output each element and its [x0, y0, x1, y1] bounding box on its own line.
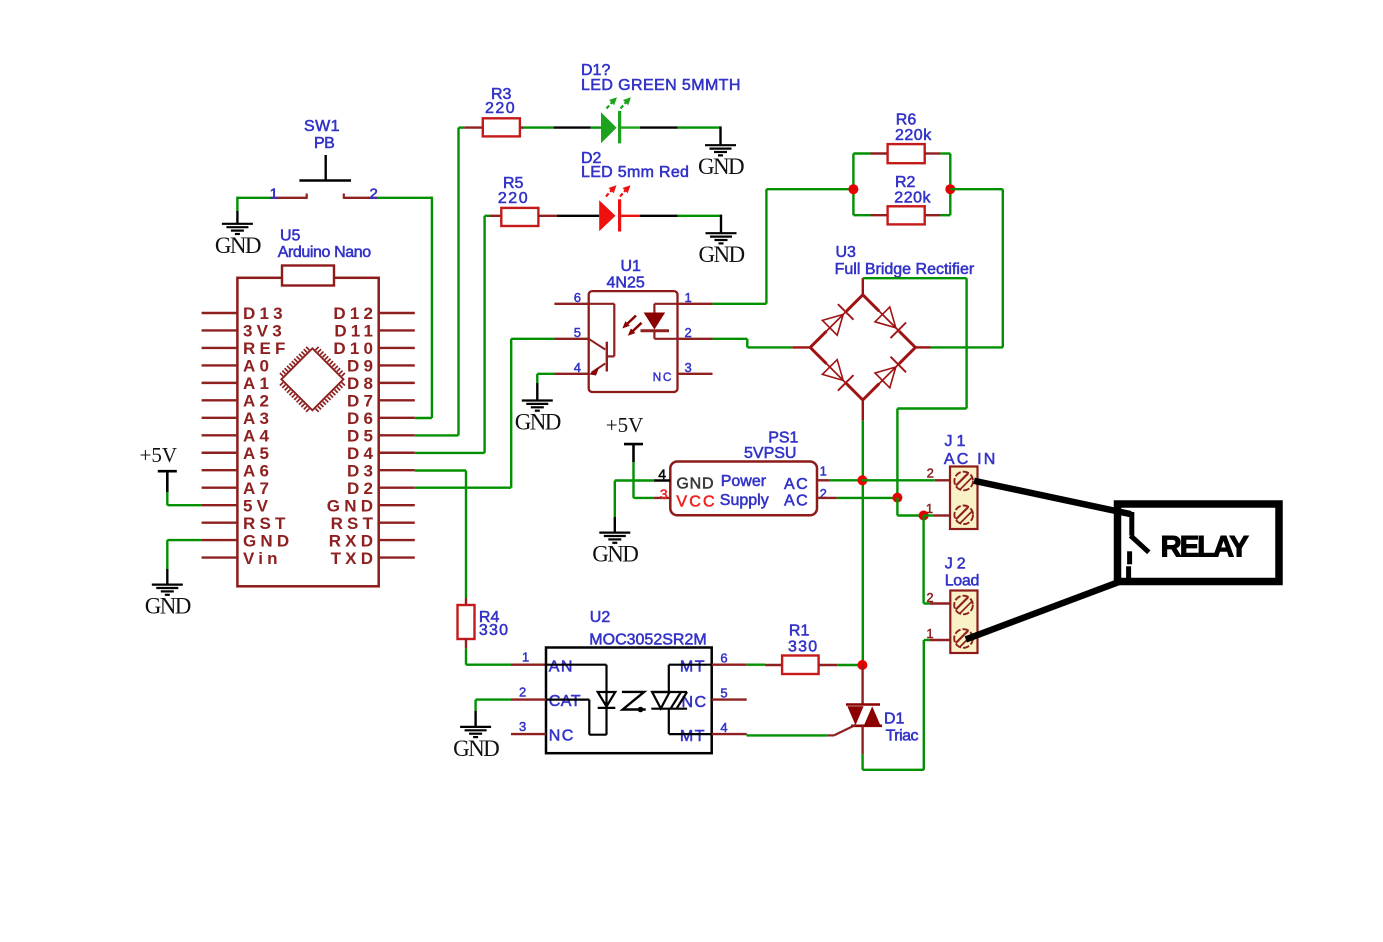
svg-text:A4: A4 [243, 426, 273, 445]
svg-text:GND: GND [145, 594, 191, 619]
svg-text:D8: D8 [347, 374, 377, 393]
svg-text:Vin: Vin [243, 549, 282, 568]
svg-text:MT: MT [680, 658, 706, 675]
svg-text:AC: AC [784, 476, 809, 493]
svg-text:Power: Power [721, 473, 767, 490]
svg-text:D13: D13 [243, 304, 287, 323]
svg-text:D7: D7 [347, 392, 377, 411]
svg-text:U3: U3 [836, 244, 857, 261]
svg-text:220: 220 [498, 190, 529, 207]
svg-text:220k: 220k [895, 127, 932, 144]
svg-text:3: 3 [519, 719, 526, 734]
svg-text:A3: A3 [243, 409, 273, 428]
svg-text:3: 3 [685, 360, 692, 375]
svg-text:GND: GND [515, 410, 561, 435]
svg-text:VCC: VCC [676, 493, 716, 510]
svg-text:6: 6 [574, 290, 581, 305]
svg-text:330: 330 [788, 638, 818, 655]
svg-text:AC: AC [784, 493, 809, 510]
svg-text:U5: U5 [280, 228, 301, 245]
svg-text:GND: GND [243, 531, 293, 550]
svg-text:Load: Load [945, 572, 979, 589]
svg-text:D4: D4 [347, 444, 377, 463]
svg-text:220: 220 [485, 100, 516, 117]
svg-text:AN: AN [549, 658, 574, 675]
svg-text:1: 1 [926, 501, 933, 516]
svg-text:MT: MT [680, 728, 706, 745]
svg-text:1: 1 [270, 186, 278, 203]
svg-text:A0: A0 [243, 357, 273, 376]
svg-text:D10: D10 [333, 339, 377, 358]
svg-text:2: 2 [927, 466, 934, 481]
svg-text:2: 2 [519, 684, 526, 699]
svg-text:4N25: 4N25 [607, 275, 645, 292]
svg-text:RELAY: RELAY [1161, 530, 1250, 563]
svg-text:A5: A5 [243, 444, 273, 463]
svg-text:REF: REF [243, 339, 290, 358]
svg-text:GND: GND [676, 475, 714, 492]
svg-text:5: 5 [574, 325, 581, 340]
svg-text:2: 2 [685, 325, 692, 340]
svg-text:RST: RST [243, 514, 290, 533]
svg-text:D6: D6 [347, 409, 377, 428]
svg-text:1: 1 [820, 463, 827, 478]
svg-text:4: 4 [720, 720, 727, 735]
svg-text:D11: D11 [334, 322, 377, 341]
svg-text:Arduino Nano: Arduino Nano [278, 244, 372, 261]
svg-text:D3: D3 [347, 461, 377, 480]
svg-text:GND: GND [215, 233, 261, 258]
svg-text:LED 5mm Red: LED 5mm Red [581, 164, 689, 181]
svg-text:5: 5 [720, 685, 727, 700]
svg-text:3: 3 [660, 486, 668, 502]
svg-text:CAT: CAT [549, 693, 581, 710]
svg-text:D1: D1 [884, 711, 905, 728]
svg-text:A1: A1 [243, 374, 273, 393]
svg-text:NC: NC [549, 728, 575, 745]
svg-text:A7: A7 [243, 479, 273, 498]
svg-text:330: 330 [479, 622, 509, 639]
svg-text:A2: A2 [243, 392, 273, 411]
svg-text:220k: 220k [894, 190, 931, 207]
svg-text:Full Bridge Rectifier: Full Bridge Rectifier [835, 261, 975, 278]
svg-text:Supply: Supply [720, 492, 769, 509]
svg-text:D5: D5 [347, 426, 377, 445]
svg-text:PB: PB [314, 135, 334, 152]
svg-text:1: 1 [685, 290, 692, 305]
svg-text:Triac: Triac [886, 728, 919, 745]
svg-text:2: 2 [370, 186, 378, 203]
svg-text:RXD: RXD [329, 531, 378, 550]
svg-text:J2: J2 [945, 556, 970, 573]
svg-text:GND: GND [698, 154, 744, 179]
svg-text:+5V: +5V [606, 413, 644, 437]
svg-text:1: 1 [926, 626, 933, 641]
svg-text:3V3: 3V3 [243, 322, 286, 341]
svg-text:5VPSU: 5VPSU [744, 445, 796, 462]
svg-text:1: 1 [522, 649, 529, 664]
svg-text:R1: R1 [789, 622, 810, 639]
svg-text:RST: RST [331, 514, 378, 533]
svg-text:J1: J1 [945, 433, 970, 450]
svg-text:GND: GND [698, 242, 744, 267]
svg-text:D12: D12 [333, 304, 377, 323]
svg-text:A6: A6 [243, 461, 273, 480]
svg-text:5V: 5V [243, 496, 272, 515]
svg-text:D2: D2 [347, 479, 377, 498]
svg-text:U2: U2 [590, 609, 611, 626]
svg-text:U1: U1 [621, 258, 642, 275]
svg-text:GND: GND [592, 542, 638, 567]
svg-text:NC: NC [653, 370, 673, 384]
svg-text:GND: GND [453, 736, 499, 761]
svg-text:TXD: TXD [331, 549, 378, 568]
svg-text:D9: D9 [347, 357, 377, 376]
svg-text:SW1: SW1 [304, 118, 340, 135]
svg-text:GND: GND [327, 496, 377, 515]
svg-text:4: 4 [574, 360, 581, 375]
svg-text:R2: R2 [895, 174, 916, 191]
svg-text:+5V: +5V [140, 443, 178, 467]
svg-text:4: 4 [658, 466, 666, 482]
svg-text:R6: R6 [896, 112, 917, 129]
svg-text:6: 6 [720, 650, 727, 665]
svg-text:PS1: PS1 [768, 429, 798, 446]
svg-text:LED GREEN 5MMTH: LED GREEN 5MMTH [581, 77, 741, 94]
svg-text:MOC3052SR2M: MOC3052SR2M [589, 631, 706, 648]
